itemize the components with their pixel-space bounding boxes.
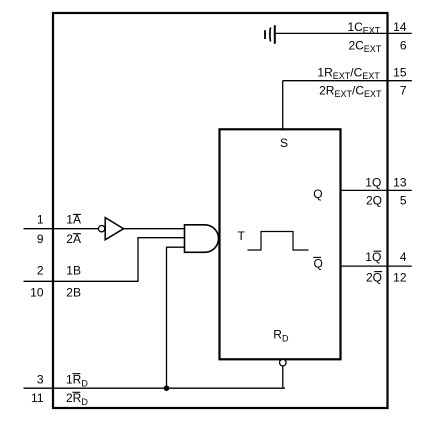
- svg-text:1B: 1B: [66, 264, 81, 278]
- wire RD pin 3 net: [24, 387, 286, 389]
- svg-text:2Q: 2Q: [366, 193, 382, 207]
- label 2A bar: [66, 232, 81, 246]
- wire bubble to RD net: [282, 366, 284, 388]
- svg-text:1Q: 1Q: [365, 175, 381, 189]
- label 1RD: [66, 373, 88, 389]
- svg-text:5: 5: [400, 193, 407, 207]
- svg-text:15: 15: [393, 66, 407, 80]
- wire Qbar to pin 4: [341, 265, 412, 267]
- label 1A bar: [66, 213, 81, 227]
- svg-text:14: 14: [393, 20, 407, 34]
- wire Q to pin 13: [341, 189, 412, 191]
- wire inverter to AND: [124, 228, 185, 230]
- svg-text:2: 2: [37, 264, 44, 278]
- AND gate: [185, 225, 219, 253]
- wire S input: [282, 81, 284, 130]
- svg-text:1Q: 1Q: [365, 250, 381, 264]
- label Qbar inside block: [313, 256, 323, 270]
- svg-text:7: 7: [400, 83, 407, 97]
- wire REXT/CEXT to pin 15: [283, 80, 412, 82]
- svg-text:S: S: [280, 136, 288, 150]
- wire A input pin 1 net: [24, 228, 99, 230]
- wire RD net to AND input: [167, 247, 185, 388]
- svg-text:T: T: [238, 229, 246, 243]
- capacitor CEXT: [265, 25, 275, 44]
- label 2Qbar: [366, 271, 382, 285]
- svg-text:9: 9: [37, 232, 44, 246]
- svg-text:10: 10: [30, 286, 44, 300]
- outer box: [53, 13, 388, 408]
- svg-text:2Q: 2Q: [366, 271, 382, 285]
- wire B input pin 2 net: [24, 238, 185, 282]
- svg-text:1: 1: [37, 213, 44, 227]
- svg-text:3: 3: [37, 373, 44, 387]
- svg-text:6: 6: [400, 38, 407, 52]
- svg-text:Q: Q: [314, 256, 323, 270]
- label 1Qbar: [365, 250, 381, 264]
- inverter: [98, 218, 123, 240]
- svg-text:Q: Q: [313, 187, 322, 201]
- wire CEXT to pin 14: [276, 32, 412, 34]
- svg-text:11: 11: [31, 391, 44, 405]
- junction RD net: [164, 385, 170, 391]
- svg-text:12: 12: [393, 271, 407, 285]
- label 2RD: [66, 391, 88, 407]
- trigger pulse waveform: [248, 232, 309, 251]
- one-shot block U1: [220, 129, 341, 359]
- reset bubble: [280, 359, 287, 366]
- svg-text:4: 4: [400, 250, 407, 264]
- svg-text:2B: 2B: [66, 286, 81, 300]
- svg-text:13: 13: [393, 175, 407, 189]
